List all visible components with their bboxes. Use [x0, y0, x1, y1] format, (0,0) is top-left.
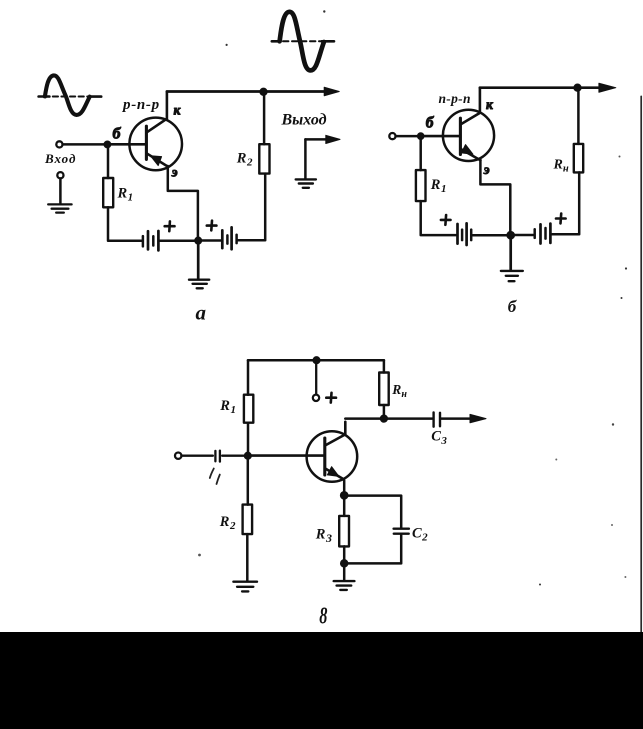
- wire: R2 top to collector node: [263, 95, 266, 144]
- ground (R3): [334, 581, 355, 590]
- supply terminal: [313, 395, 319, 401]
- page edge line: [640, 96, 642, 632]
- speck: [621, 297, 623, 299]
- svg-text:б: б: [113, 126, 122, 143]
- wire: emitter node to R3: [343, 499, 346, 516]
- wire: input terminal to base node: [63, 143, 105, 146]
- resistor R2: [243, 505, 253, 534]
- CIRCUIT-A: [39, 12, 340, 325]
- wire: C2 to R3 bottom node: [348, 535, 402, 563]
- svg-text:Вход: Вход: [44, 151, 76, 166]
- battery GB2: [202, 227, 237, 249]
- wire: GB2 to Rн bottom: [552, 172, 579, 234]
- wire: GB1 to mid junction: [473, 234, 508, 237]
- VT1 collector lead: [146, 92, 167, 133]
- VT3 base bar: [323, 438, 326, 475]
- wire: C3 to output arrow: [441, 417, 470, 420]
- output arrow head: [470, 414, 486, 422]
- node: collector / Rн / C3: [381, 415, 388, 422]
- output arrow head: [599, 83, 616, 92]
- VT2 collector lead: [460, 88, 480, 125]
- speck: [539, 584, 541, 586]
- svg-text:к: к: [486, 97, 494, 112]
- wire: top supply rail: [248, 359, 384, 362]
- battery GB1: [458, 223, 472, 245]
- battery GB2: [514, 224, 550, 244]
- node: base junction: [104, 141, 110, 147]
- resistor R1: [416, 170, 426, 201]
- wire: input terminal to base node: [396, 135, 418, 138]
- VT3 emitter lead: [325, 468, 344, 479]
- capacitor C3: [434, 412, 440, 426]
- wire: emitter to battery junction: [480, 160, 510, 232]
- CIRCUIT-B: [226, 10, 642, 632]
- node: battery mid junction: [507, 232, 514, 239]
- output sine wave icon: [272, 12, 334, 71]
- input sine wave icon: [39, 75, 102, 115]
- label + (GB1): [165, 221, 175, 231]
- wire: base node down to R1: [419, 139, 422, 170]
- ground (input reference): [48, 204, 71, 212]
- VT2 emitter lead: [460, 149, 480, 160]
- wire: collector rail: [167, 90, 325, 93]
- wire: base node down to R2: [247, 459, 250, 505]
- ground (battery): [501, 271, 523, 281]
- VT1 emitter lead: [146, 153, 168, 166]
- wire: R1 to battery line: [421, 201, 456, 235]
- wire: supply stub: [315, 363, 317, 394]
- wire: Rн top to collector node: [577, 91, 580, 144]
- label + (GB1): [441, 215, 451, 225]
- svg-text:Выход: Выход: [281, 111, 327, 128]
- speck: [198, 554, 201, 557]
- wire: GB1 to mid junction: [160, 239, 195, 242]
- wire: base node down to R1: [107, 148, 110, 179]
- input terminal: [389, 133, 395, 139]
- resistor R3: [339, 516, 349, 547]
- node: emitter junction: [341, 492, 348, 499]
- svg-text:к: к: [174, 102, 182, 117]
- wire: emitter to battery junction: [168, 166, 198, 238]
- VT2 base bar: [459, 118, 462, 154]
- svg-text:n-p-n: n-p-n: [439, 91, 471, 106]
- wire: junction to ground: [509, 239, 512, 270]
- label + (supply): [326, 393, 336, 403]
- input terminal: [175, 453, 181, 459]
- wire: R1 to battery line: [108, 207, 141, 240]
- label + (GB2): [556, 214, 566, 224]
- wire: Rн bottom to node: [383, 405, 386, 415]
- svg-text:э: э: [483, 163, 490, 178]
- wire: C1 to base node: [222, 455, 244, 457]
- resistor Rн: [574, 144, 583, 173]
- speck: [323, 10, 325, 12]
- speck: [226, 44, 228, 46]
- ground (output reference): [296, 179, 316, 187]
- wire: reference terminal to ground: [59, 179, 62, 203]
- transistor VT3 body: [307, 431, 358, 482]
- capacitor C2: [394, 529, 409, 534]
- VT1 emitter arrow (points to base, p-n-p): [150, 156, 161, 166]
- transistor VT1 (p-n-p) body: [129, 118, 182, 171]
- node: base junction: [418, 133, 424, 139]
- node: R3 bottom junction: [341, 560, 348, 567]
- svg-text:б: б: [426, 115, 435, 132]
- node: battery mid junction: [195, 237, 202, 244]
- wire: base node to transistor: [251, 454, 324, 457]
- label + (GB2): [207, 221, 217, 231]
- node: collector / R2 / output: [260, 88, 267, 95]
- wire: emitter to node: [343, 481, 346, 492]
- wire: GB2 to R2 bottom: [238, 174, 265, 241]
- node: collector / Rн / output: [574, 84, 581, 91]
- node: base junction: [245, 452, 252, 459]
- wire: junction to ground: [197, 244, 200, 279]
- wire: input terminal to C1: [182, 455, 213, 457]
- wire: R2 to ground: [246, 534, 249, 580]
- wire: reference arrow to ground: [304, 139, 307, 178]
- svg-text:а: а: [196, 300, 207, 324]
- reference terminal: [57, 172, 63, 178]
- VT2 emitter arrow (points out, n-p-n): [461, 145, 473, 155]
- transistor VT2 (n-p-n) body: [443, 110, 494, 161]
- label C1 (faded): [210, 469, 220, 485]
- wire: rail to R1 top: [247, 360, 250, 395]
- VT1 base bar: [145, 126, 148, 159]
- output reference arrow: [305, 138, 326, 141]
- speck: [611, 524, 613, 526]
- wire: collector to C3: [345, 417, 432, 420]
- svg-text:э: э: [171, 165, 178, 180]
- resistor R1: [244, 395, 253, 423]
- ground (battery): [189, 280, 209, 289]
- wire: rail to Rн top: [383, 360, 386, 372]
- wire: collector rail: [480, 86, 598, 89]
- resistor Rн: [379, 373, 389, 406]
- wire: R1 to base node: [247, 423, 250, 453]
- input terminal: [56, 141, 62, 147]
- wire: emitter node to C2 branch: [348, 496, 402, 528]
- resistor R1: [103, 178, 113, 207]
- speck: [624, 576, 626, 578]
- battery GB1: [143, 231, 159, 250]
- VT3 collector lead: [325, 422, 346, 446]
- speck: [555, 459, 557, 461]
- wire: base node to base bar: [424, 135, 460, 138]
- capacitor C1: [215, 451, 220, 462]
- node: supply rail junction: [313, 357, 320, 364]
- speck: [619, 156, 621, 158]
- ground (R2): [233, 582, 257, 592]
- VT3 emitter arrow (points out, n-p-n): [327, 467, 339, 477]
- resistor R2: [259, 144, 269, 173]
- svg-text:p-n-p: p-n-p: [121, 97, 160, 113]
- CIRCUIT-V: [175, 357, 626, 630]
- speck: [625, 267, 627, 269]
- wire: base node to base bar: [110, 143, 146, 146]
- svg-text:8: 8: [319, 604, 327, 630]
- speck: [612, 423, 614, 425]
- output arrow head: [324, 87, 339, 96]
- wire: R3 node to ground: [343, 546, 346, 580]
- bottom black band: [0, 632, 643, 729]
